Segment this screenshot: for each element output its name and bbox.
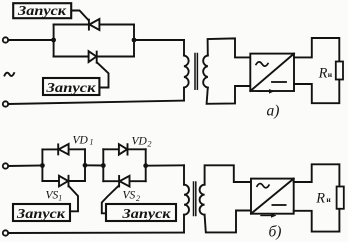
wire secondary top lead (circuit a) <box>208 38 251 57</box>
label VS2 <box>123 190 141 204</box>
block Zapusk 1 (circuit a) <box>13 3 71 19</box>
transformer T2 core <box>194 182 196 216</box>
terminal input bottom (circuit b) <box>3 230 8 235</box>
node left junction (circuit a) <box>51 38 56 43</box>
svg-text:VS: VS <box>123 190 136 202</box>
wire left vertical of parallel block <box>53 25 55 57</box>
resistor Rn (circuit a) <box>336 62 343 80</box>
transformer T1 secondary winding <box>203 56 208 88</box>
thyristor VS bottom (circuit a, points right) <box>89 51 97 63</box>
wire gate of bottom thyristor to Zapusk box <box>97 63 109 88</box>
svg-text:Запуск: Запуск <box>45 81 96 96</box>
wire load bottom (circuit b) <box>294 209 340 232</box>
wire cell2 to transformer (circuit b) <box>146 164 184 166</box>
terminal input bottom (circuit a) <box>3 101 8 106</box>
wire load bottom (circuit a) <box>294 80 339 104</box>
label Rn (circuit b) <box>315 190 331 206</box>
wire bottom branch (circuit a) <box>54 56 134 58</box>
wire cell1 left vertical <box>41 149 43 181</box>
wire secondary bottom lead (circuit b) <box>205 211 251 233</box>
wire cell1 top branch <box>42 148 85 150</box>
wire cell2 top branch <box>103 148 145 150</box>
wire right vertical of parallel block <box>133 25 135 57</box>
thyristor VS2 (points left) <box>119 176 129 187</box>
label ~ source (circuit a) <box>5 73 15 76</box>
diode VD1 (points left) <box>58 144 68 155</box>
svg-text:а): а) <box>267 103 280 120</box>
terminal input top (circuit b) <box>3 163 8 168</box>
svg-text:2: 2 <box>136 194 140 203</box>
block Zapusk 1 (circuit b) <box>13 204 70 222</box>
svg-text:н: н <box>328 70 333 79</box>
wire cell1 to cell2 (circuit b) <box>85 164 103 166</box>
node cell1 right junction <box>83 163 88 168</box>
transformer T2 primary lead top <box>183 165 185 184</box>
label VS1 <box>46 189 63 202</box>
block Zapusk 2 (circuit b) <box>106 204 176 222</box>
rectifier U2 box (circuit b) <box>251 179 294 214</box>
wire cell1 bottom branch <box>42 180 85 182</box>
svg-text:R: R <box>318 66 328 82</box>
wire cell2 left vertical <box>102 149 104 181</box>
arrow under rectifier (circuit a) <box>258 89 275 94</box>
svg-text:н: н <box>326 195 331 204</box>
svg-text:Запуск: Запуск <box>17 4 67 19</box>
transformer T1 primary lead top <box>183 40 185 56</box>
svg-text:1: 1 <box>58 193 62 202</box>
wire parallel block to transformer (circuit a) <box>134 39 184 41</box>
svg-text:VD: VD <box>132 136 148 148</box>
wire gate of top thyristor from Zapusk box <box>71 11 88 21</box>
label VD1 <box>73 135 94 147</box>
wire cell1 right vertical <box>84 149 86 181</box>
node cell2 left junction <box>101 163 106 168</box>
label Rn (circuit a) <box>318 66 333 82</box>
node right junction (circuit a) <box>132 38 137 43</box>
svg-text:VS: VS <box>46 189 59 201</box>
wire cell2 bottom branch <box>103 180 145 182</box>
node cell2 right junction <box>143 163 148 168</box>
svg-text:Запуск: Запуск <box>16 207 66 222</box>
wire rectifier to load top (circuit b) <box>294 164 340 186</box>
thyristor VS top (circuit a, points left) <box>89 19 100 30</box>
wire terminal to parallel block (circuit a) <box>8 39 53 41</box>
svg-text:Запуск: Запуск <box>121 207 171 222</box>
wire secondary bottom lead (circuit a) <box>207 86 251 104</box>
transformer T1 primary winding <box>184 56 189 88</box>
transformer T1 core <box>195 54 197 90</box>
resistor Rn (circuit b) <box>337 187 344 209</box>
thyristor VS1 (points right) <box>59 176 69 187</box>
transformer T2 primary winding <box>184 185 189 215</box>
svg-text:1: 1 <box>90 138 94 147</box>
svg-text:2: 2 <box>148 139 152 148</box>
wire rectifier to load top (circuit a) <box>294 38 339 61</box>
label VD2 <box>132 136 152 149</box>
svg-text:R: R <box>315 190 325 206</box>
transformer T2 primary lead bottom <box>183 215 185 233</box>
svg-text:б): б) <box>269 224 282 241</box>
diode VD2 (points right) <box>119 144 128 154</box>
svg-text:VD: VD <box>73 135 89 147</box>
transformer T2 secondary winding <box>200 185 205 215</box>
wire top branch (circuit a) <box>54 24 134 26</box>
node cell1 left junction <box>40 163 45 168</box>
wire terminal to cell 1 (circuit b) <box>8 165 42 168</box>
wire cell2 right vertical <box>145 149 147 181</box>
wire bottom return (circuit b) <box>8 232 184 234</box>
block Zapusk 2 (circuit a) <box>43 78 99 96</box>
terminal input top (circuit a) <box>3 37 8 42</box>
arrow under rectifier (circuit b) <box>261 213 277 218</box>
wire bottom return (circuit a) <box>8 101 184 104</box>
rectifier U1 box (circuit a) <box>250 54 294 91</box>
wire gate VS1 to Zapusk box <box>69 186 78 211</box>
wire secondary top lead (circuit b) <box>205 165 251 184</box>
wire gate VS2 to Zapusk box <box>102 186 119 214</box>
transformer T1 primary lead bottom <box>183 88 185 101</box>
